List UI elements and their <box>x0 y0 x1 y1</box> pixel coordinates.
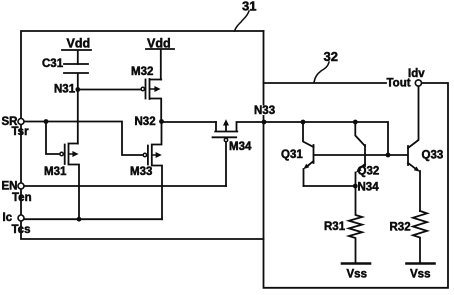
terminal Ic <box>18 215 24 221</box>
block 32 label leader <box>314 62 329 83</box>
transistor Q32 <box>353 120 358 125</box>
transistor M33 <box>143 153 146 156</box>
terminal SR <box>18 119 24 125</box>
svg-text:Ten: Ten <box>12 192 32 204</box>
svg-text:Idv: Idv <box>408 68 425 80</box>
ground Vss 1 <box>342 262 370 265</box>
label N33 <box>253 106 277 116</box>
block 31 box <box>21 31 264 239</box>
resistor R31 <box>349 186 362 263</box>
wire N31 to M32 gate <box>80 89 141 91</box>
terminal Tout <box>415 80 421 86</box>
svg-text:Vdd: Vdd <box>67 37 91 51</box>
svg-text:M31: M31 <box>44 166 67 178</box>
terminal EN <box>18 183 24 189</box>
wire EN row <box>25 185 227 187</box>
svg-text:N33: N33 <box>254 105 275 117</box>
wire base line <box>314 154 407 156</box>
svg-text:Vdd: Vdd <box>147 37 171 51</box>
transistor Q33 <box>407 146 409 165</box>
svg-text:Q33: Q33 <box>422 150 444 162</box>
wire Ic row <box>25 218 163 220</box>
node N34 <box>353 184 358 189</box>
svg-text:M34: M34 <box>229 141 252 153</box>
svg-text:R32: R32 <box>390 222 411 234</box>
node N33 <box>262 120 267 125</box>
svg-text:Q31: Q31 <box>281 149 303 161</box>
svg-text:N34: N34 <box>358 182 380 194</box>
transistor M31 <box>60 152 63 155</box>
transistor M32 <box>146 79 162 120</box>
wire N33 row <box>266 122 388 153</box>
svg-text:Vss: Vss <box>347 269 367 281</box>
svg-text:Tsr: Tsr <box>12 126 30 138</box>
block 32 box <box>264 31 449 288</box>
wire M31 gate <box>46 122 60 155</box>
svg-text:Q32: Q32 <box>358 166 380 178</box>
node N31 <box>77 91 79 144</box>
svg-text:32: 32 <box>324 49 338 64</box>
node N32 <box>159 119 164 124</box>
svg-text:Tcs: Tcs <box>12 224 31 236</box>
block 31 label leader <box>235 11 250 31</box>
wire N32 to M34 <box>164 121 216 123</box>
svg-text:N31: N31 <box>54 84 76 96</box>
svg-text:EN: EN <box>2 181 18 193</box>
ground Vss 2 <box>407 262 435 265</box>
wire SR row <box>25 122 143 156</box>
svg-text:M32: M32 <box>131 66 153 78</box>
svg-text:Vss: Vss <box>410 269 430 281</box>
Vdd rail 1 <box>62 50 91 64</box>
svg-text:M33: M33 <box>130 166 152 178</box>
transistor M34 <box>215 122 262 132</box>
svg-text:Ic: Ic <box>3 212 13 224</box>
svg-text:C31: C31 <box>42 58 64 70</box>
resistor R32 <box>413 211 427 263</box>
wire N34 row <box>304 185 356 187</box>
svg-text:31: 31 <box>242 0 256 14</box>
svg-text:R31: R31 <box>324 221 346 233</box>
Vdd rail 2 <box>146 49 174 80</box>
svg-text:N32: N32 <box>135 116 156 128</box>
svg-text:Tout: Tout <box>387 78 411 90</box>
transistor Q31 <box>301 120 306 125</box>
capacitor C31 <box>64 64 88 88</box>
